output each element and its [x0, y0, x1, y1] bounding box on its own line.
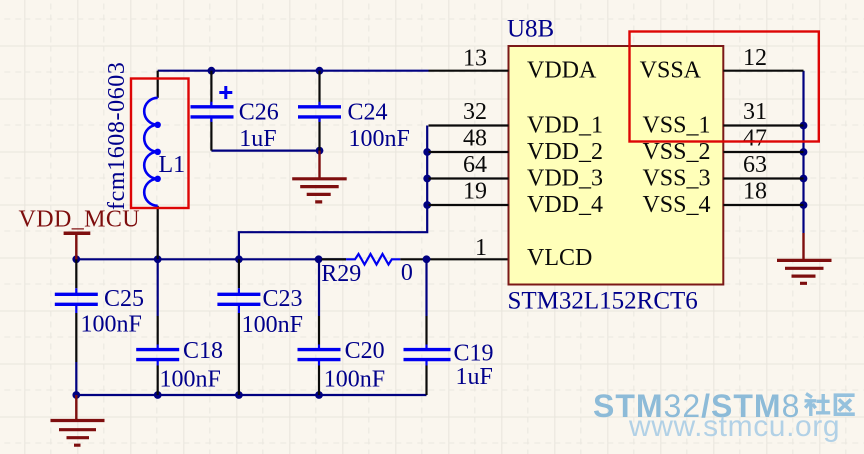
op-amp U8B chip body STM32L152RCT6 [507, 16, 723, 315]
watermark STM32/STM8 [593, 388, 855, 443]
svg-text:1uF: 1uF [456, 364, 493, 390]
pin VSS_2 47 [642, 126, 803, 165]
label fcm1608-0603 [104, 61, 130, 210]
wire L1 top stub [157, 71, 159, 98]
wire C18 column [157, 259, 159, 395]
svg-text:12: 12 [743, 45, 767, 71]
wire VDD bus to VDD pins [239, 126, 427, 260]
svg-text:47: 47 [743, 126, 767, 152]
capacitor C20 [298, 338, 386, 392]
pin VDD_1 32 [429, 99, 604, 138]
node junction bottom C18 [154, 391, 162, 399]
pin VSS_4 18 [642, 179, 803, 218]
wire R29 right to VLCD pin [400, 258, 508, 260]
inductor L1 [144, 98, 185, 206]
pin VSS_3 63 [642, 152, 803, 191]
pin VDDA 13 [429, 45, 597, 83]
wire C23 stubs [238, 259, 240, 395]
svg-text:C24: C24 [348, 100, 388, 126]
svg-text:L1: L1 [159, 152, 186, 178]
pin VLCD 1 [475, 235, 592, 271]
capacitor C25 [55, 286, 144, 338]
svg-text:32: 32 [463, 99, 487, 125]
wire top VDDA rail [158, 70, 429, 72]
svg-text:VDDA: VDDA [527, 58, 597, 84]
node junction bottom C25 [72, 391, 80, 399]
svg-text:VSSA: VSSA [640, 58, 702, 84]
node junction bottom C23 [235, 391, 243, 399]
node junction rail C25 [72, 255, 80, 263]
power port VDD_MCU [19, 207, 140, 260]
capacitor C24 [298, 100, 410, 153]
node junction VSS pin47 [800, 148, 808, 156]
node junction C24 bottom ground [316, 147, 324, 155]
svg-text:31: 31 [743, 99, 767, 125]
wire VSS vertical [802, 71, 804, 233]
ground bottom left [51, 395, 105, 445]
svg-text:STM32L152RCT6: STM32L152RCT6 [508, 288, 698, 315]
svg-text:VDD_MCU: VDD_MCU [19, 207, 140, 233]
wire C26 bottom to C24 bottom [211, 150, 319, 152]
svg-text:18: 18 [743, 179, 767, 205]
ground right VSS [777, 233, 832, 283]
pin VDD_4 19 [429, 179, 604, 218]
capacitor C23 [217, 286, 303, 338]
svg-text:C25: C25 [104, 286, 144, 312]
svg-text:13: 13 [463, 45, 487, 71]
svg-text:U8B: U8B [507, 16, 554, 43]
wire C26 stubs [210, 71, 212, 151]
svg-text:64: 64 [463, 152, 487, 178]
svg-text:VDD_3: VDD_3 [527, 165, 603, 191]
wire C25 stubs [75, 259, 77, 395]
node junction VSS pin63 [800, 175, 808, 183]
svg-text:0: 0 [401, 260, 413, 286]
svg-text:100nF: 100nF [324, 366, 385, 392]
svg-text:100nF: 100nF [349, 126, 410, 152]
node junction C24 top [316, 67, 324, 75]
node junction bus pin19 [423, 201, 431, 209]
svg-text:100nF: 100nF [81, 312, 142, 338]
svg-text:R29: R29 [321, 261, 361, 287]
svg-text:C19: C19 [454, 341, 494, 367]
node junction bus pin48 [423, 148, 431, 156]
ground under C24 [292, 151, 347, 202]
pin VDD_2 48 [429, 126, 604, 165]
svg-text:C26: C26 [239, 100, 279, 126]
svg-text:VSS_4: VSS_4 [642, 192, 710, 218]
svg-text:100nF: 100nF [242, 312, 303, 338]
node junction bus pin64 [423, 175, 431, 183]
svg-text:48: 48 [463, 126, 487, 152]
node junction C26 top [208, 67, 216, 75]
capacitor C18 [136, 338, 223, 392]
svg-text:C23: C23 [263, 286, 303, 312]
svg-text:100nF: 100nF [160, 366, 221, 392]
wire C24 stubs [318, 71, 320, 151]
svg-text:VDD_2: VDD_2 [527, 139, 603, 165]
svg-text:VDD_4: VDD_4 [527, 192, 603, 218]
red highlight box L1 [131, 79, 189, 209]
svg-text:VSS_1: VSS_1 [642, 112, 710, 138]
node junction rail C20 [315, 255, 323, 263]
resistor R29 [321, 254, 413, 287]
wire bottom ground rail [76, 394, 426, 396]
node junction rail C23 [235, 255, 243, 263]
capacitor C26 [191, 86, 279, 152]
wire C20 column [318, 259, 320, 395]
node junction VSS pin31 [800, 122, 808, 130]
svg-text:1: 1 [475, 235, 487, 261]
pin VDD_3 64 [429, 152, 604, 191]
pin VSS_1 31 [642, 99, 803, 138]
wire C19 column [425, 259, 427, 395]
svg-text:fcm1608-0603: fcm1608-0603 [104, 61, 130, 210]
node junction rail L1 [154, 255, 162, 263]
svg-text:www.stmcu.org: www.stmcu.org [628, 410, 840, 443]
svg-text:1uF: 1uF [239, 126, 276, 152]
red highlight box VSSA [630, 32, 819, 142]
svg-text:VLCD: VLCD [527, 245, 592, 271]
node junction VSS pin18 [800, 201, 808, 209]
svg-text:VSS_3: VSS_3 [642, 165, 710, 191]
pin VSSA 12 [640, 45, 804, 84]
svg-text:C20: C20 [345, 338, 385, 364]
wire VDD_MCU rail [76, 258, 346, 260]
wire L1 bottom stub [157, 206, 159, 259]
node junction rail C19 [423, 255, 431, 263]
svg-text:C18: C18 [183, 338, 223, 364]
svg-text:63: 63 [743, 152, 767, 178]
node junction bottom C20 [315, 391, 323, 399]
svg-text:19: 19 [463, 179, 487, 205]
svg-text:VDD_1: VDD_1 [527, 112, 603, 138]
capacitor C19 [404, 341, 494, 391]
